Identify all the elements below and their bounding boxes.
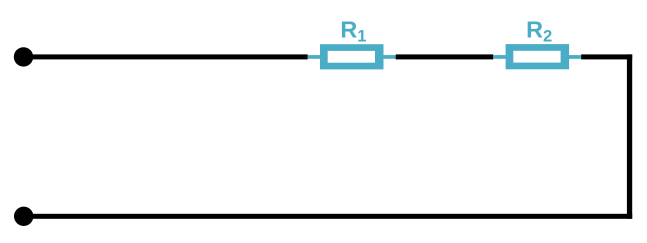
wire: right vertical segment [627,54,632,218]
wire: top-left horizontal segment from terminal A to R1 [24,54,308,59]
svg-text:R1: R1 [340,17,366,46]
wire: bottom horizontal segment [24,214,633,219]
node A: top-left terminal dot [14,47,33,66]
wire: top-right horizontal segment from R2 to corner [581,54,632,59]
wire: horizontal segment between R1 and R2 [396,54,494,59]
node B: bottom-left terminal dot [14,207,33,226]
resistor R1 (IEC box symbol) [308,44,396,69]
svg-text:R2: R2 [526,17,552,46]
resistor R2 (IEC box symbol) [493,44,581,69]
